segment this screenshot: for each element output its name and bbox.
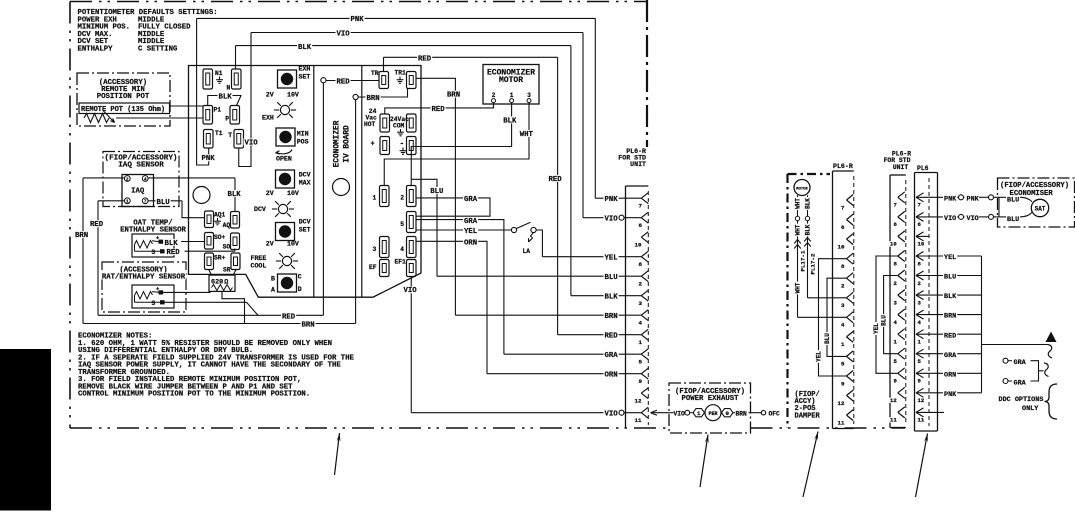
- svg-text:7: 7: [639, 203, 643, 210]
- svg-text:BRN: BRN: [605, 313, 618, 321]
- svg-text:HOT: HOT: [364, 121, 376, 128]
- svg-text:1: 1: [373, 195, 377, 202]
- svg-text:4: 4: [639, 320, 643, 327]
- svg-text:P: P: [225, 116, 229, 123]
- svg-text:12: 12: [890, 397, 897, 404]
- svg-text:UNIT: UNIT: [893, 164, 909, 171]
- svg-text:BRN: BRN: [367, 95, 380, 103]
- svg-text:D: D: [298, 286, 302, 293]
- svg-text:9: 9: [639, 378, 643, 385]
- svg-text:SO: SO: [223, 243, 231, 250]
- svg-text:BLK: BLK: [944, 293, 957, 301]
- svg-text:BLK: BLK: [804, 198, 811, 209]
- svg-text:SET: SET: [299, 227, 311, 234]
- svg-text:EF1: EF1: [395, 259, 407, 266]
- svg-text:N1: N1: [215, 70, 223, 77]
- svg-text:YEL: YEL: [944, 254, 956, 262]
- svg-text:LA: LA: [523, 248, 531, 255]
- svg-text:VIO: VIO: [674, 411, 686, 418]
- svg-text:BLK: BLK: [298, 44, 312, 52]
- svg-text:TR: TR: [371, 70, 379, 77]
- svg-text:2: 2: [492, 92, 496, 99]
- svg-text:2V: 2V: [266, 190, 274, 197]
- svg-text:VIO: VIO: [944, 215, 956, 223]
- svg-text:WHT: WHT: [520, 131, 534, 139]
- svg-text:RED: RED: [549, 176, 563, 184]
- svg-text:PNK: PNK: [967, 195, 980, 203]
- svg-text:(FIOP/ACCESSORY): (FIOP/ACCESSORY): [1000, 182, 1069, 190]
- svg-text:-: -: [400, 140, 405, 149]
- svg-text:ECONOMIZER: ECONOMIZER: [333, 120, 341, 167]
- svg-text:MOTOR: MOTOR: [499, 76, 523, 85]
- svg-text:DCV: DCV: [299, 172, 311, 179]
- svg-text:AQ: AQ: [223, 222, 231, 229]
- svg-text:SET: SET: [299, 74, 311, 81]
- svg-text:ORN: ORN: [464, 240, 477, 248]
- svg-text:PL6: PL6: [917, 165, 929, 172]
- svg-text:T1: T1: [215, 130, 223, 137]
- svg-text:2: 2: [639, 281, 643, 288]
- svg-text:MIN: MIN: [297, 131, 309, 138]
- svg-text:BRN: BRN: [447, 92, 460, 100]
- svg-text:10: 10: [890, 241, 897, 248]
- svg-text:5: 5: [400, 221, 404, 228]
- svg-text:PL17-2: PL17-2: [809, 253, 816, 274]
- svg-text:BLU: BLU: [605, 274, 618, 282]
- svg-text:1: 1: [639, 339, 643, 346]
- svg-text:AQ1: AQ1: [214, 211, 226, 218]
- svg-text:CONTROL MINIMUM POSITION POT T: CONTROL MINIMUM POSITION POT TO THE MINI…: [78, 391, 310, 399]
- svg-text:RED: RED: [337, 79, 351, 87]
- svg-text:BLU: BLU: [1007, 216, 1019, 224]
- svg-text:2: 2: [400, 195, 404, 202]
- svg-text:VIO: VIO: [337, 30, 351, 38]
- svg-text:11: 11: [635, 417, 642, 424]
- svg-text:1: 1: [697, 410, 701, 417]
- svg-text:8: 8: [841, 263, 845, 270]
- svg-text:3: 3: [841, 302, 845, 309]
- svg-text:12: 12: [918, 397, 925, 404]
- svg-text:7: 7: [841, 204, 845, 211]
- svg-text:PNK: PNK: [944, 391, 957, 399]
- svg-text:N: N: [227, 85, 231, 92]
- svg-text:POSITION POT: POSITION POT: [97, 93, 150, 101]
- svg-text:PNK: PNK: [605, 196, 619, 204]
- svg-text:10: 10: [838, 243, 845, 250]
- svg-text:A: A: [271, 287, 275, 294]
- svg-text:RED: RED: [282, 313, 296, 321]
- svg-text:EF: EF: [369, 264, 377, 271]
- svg-text:SAT: SAT: [1035, 206, 1046, 213]
- svg-text:7: 7: [894, 202, 897, 209]
- svg-text:10: 10: [918, 241, 925, 248]
- svg-text:BRN: BRN: [736, 411, 748, 418]
- svg-text:BRN: BRN: [944, 313, 956, 321]
- svg-text:GRA: GRA: [944, 352, 957, 360]
- svg-text:ENTHALPY: ENTHALPY: [78, 45, 114, 53]
- svg-text:10: 10: [635, 242, 642, 249]
- svg-text:3: 3: [639, 300, 643, 307]
- svg-text:11: 11: [918, 417, 925, 424]
- svg-text:VIO: VIO: [245, 139, 259, 147]
- svg-text:PNK: PNK: [351, 16, 365, 24]
- svg-text:RED: RED: [418, 56, 432, 64]
- svg-text:6: 6: [841, 224, 845, 231]
- svg-text:ENTHALPY SENSOR: ENTHALPY SENSOR: [120, 226, 186, 234]
- svg-text:OPEN: OPEN: [276, 156, 292, 163]
- svg-text:UNIT: UNIT: [630, 161, 646, 168]
- svg-text:BLU: BLU: [944, 274, 956, 282]
- svg-text:DCV: DCV: [254, 206, 266, 213]
- svg-text:11: 11: [890, 417, 897, 424]
- svg-text:PNK: PNK: [202, 155, 216, 163]
- svg-text:DCV: DCV: [299, 219, 311, 226]
- svg-text:REMOTE POT (135 Ohm): REMOTE POT (135 Ohm): [81, 106, 165, 114]
- svg-text:DAMPER: DAMPER: [795, 412, 821, 420]
- svg-text:5: 5: [841, 361, 845, 368]
- svg-text:IV BOARD: IV BOARD: [343, 125, 351, 163]
- svg-text:PL6-R: PL6-R: [833, 163, 853, 170]
- svg-text:VIO: VIO: [605, 216, 619, 224]
- svg-text:S: S: [152, 300, 156, 307]
- svg-text:1: 1: [510, 92, 514, 99]
- svg-text:RED: RED: [167, 249, 181, 257]
- svg-text:YEL: YEL: [605, 255, 618, 263]
- svg-text:WHT: WHT: [794, 282, 801, 293]
- svg-text:SR+: SR+: [214, 255, 226, 262]
- svg-text:12: 12: [635, 398, 642, 405]
- svg-text:MAX: MAX: [299, 180, 311, 187]
- svg-text:SR: SR: [223, 266, 231, 273]
- svg-text:BLU: BLU: [824, 333, 831, 344]
- svg-text:POS: POS: [297, 139, 309, 146]
- svg-text:COOL: COOL: [251, 263, 267, 270]
- svg-text:7: 7: [918, 202, 921, 209]
- svg-text:YEL: YEL: [873, 323, 880, 334]
- svg-text:BLU: BLU: [881, 315, 888, 326]
- svg-text:S: S: [152, 249, 156, 256]
- svg-text:EXH: EXH: [299, 66, 311, 73]
- svg-text:RED: RED: [432, 106, 446, 114]
- svg-text:RAT/ENTHALPY SENSOR: RAT/ENTHALPY SENSOR: [102, 273, 186, 281]
- svg-text:2: 2: [841, 283, 845, 290]
- svg-text:BRN: BRN: [75, 232, 88, 240]
- svg-text:BLK: BLK: [503, 117, 517, 125]
- svg-text:FREE: FREE: [251, 255, 267, 262]
- svg-text:BLU: BLU: [430, 188, 443, 196]
- svg-text:C: C: [298, 274, 302, 281]
- svg-text:BLK: BLK: [804, 224, 811, 235]
- svg-text:2V: 2V: [266, 92, 274, 99]
- svg-text:BRN: BRN: [302, 322, 315, 330]
- svg-text:MOTOR: MOTOR: [796, 187, 808, 191]
- svg-text:11: 11: [838, 419, 845, 426]
- svg-text:5: 5: [639, 359, 643, 366]
- svg-text:9: 9: [841, 380, 845, 387]
- svg-text:4: 4: [400, 246, 404, 253]
- svg-text:0: 0: [725, 410, 729, 417]
- svg-text:4: 4: [841, 322, 845, 329]
- svg-text:T: T: [228, 132, 232, 139]
- svg-text:OFC: OFC: [769, 411, 781, 418]
- svg-text:VIO: VIO: [605, 411, 619, 419]
- svg-text:ECONOMISER: ECONOMISER: [1010, 190, 1054, 198]
- svg-text:DDC OPTIONS: DDC OPTIONS: [999, 396, 1044, 404]
- svg-text:10V: 10V: [287, 241, 299, 248]
- svg-text:GRA: GRA: [464, 218, 478, 226]
- svg-text:IAQ SENSOR: IAQ SENSOR: [118, 162, 164, 170]
- svg-text:+: +: [371, 141, 375, 149]
- svg-text:RED: RED: [605, 333, 619, 341]
- svg-text:YEL: YEL: [464, 228, 477, 236]
- svg-text:10V: 10V: [287, 190, 299, 197]
- svg-text:PNK: PNK: [944, 195, 957, 203]
- svg-text:12: 12: [838, 400, 845, 407]
- svg-text:1: 1: [126, 199, 129, 205]
- svg-text:BLK: BLK: [605, 294, 619, 302]
- svg-text:7: 7: [144, 199, 147, 205]
- svg-text:C SETTING: C SETTING: [138, 45, 178, 53]
- svg-text:B: B: [271, 276, 275, 283]
- svg-text:GRA: GRA: [1014, 359, 1027, 367]
- svg-text:RED: RED: [90, 221, 104, 229]
- svg-text:6: 6: [639, 222, 643, 229]
- svg-text:TR1: TR1: [395, 70, 407, 77]
- svg-text:GRA: GRA: [464, 196, 478, 204]
- svg-text:3: 3: [373, 246, 377, 253]
- svg-text:GRA: GRA: [1014, 379, 1027, 387]
- svg-text:BLK: BLK: [219, 94, 233, 102]
- svg-text:PER: PER: [708, 411, 717, 417]
- svg-text:10V: 10V: [287, 92, 299, 99]
- svg-text:BLK: BLK: [165, 240, 179, 248]
- svg-text:ORN: ORN: [605, 372, 618, 380]
- svg-text:3: 3: [527, 92, 531, 99]
- svg-text:PL17-1: PL17-1: [799, 250, 806, 271]
- svg-text:POWER EXHAUST: POWER EXHAUST: [682, 395, 740, 403]
- svg-text:2: 2: [126, 176, 129, 182]
- svg-text:RED: RED: [944, 332, 956, 340]
- svg-text:WHT: WHT: [794, 224, 801, 235]
- svg-text:4: 4: [144, 176, 147, 182]
- svg-text:8: 8: [639, 261, 643, 268]
- svg-text:BLU: BLU: [157, 199, 170, 207]
- svg-text:2V: 2V: [266, 241, 274, 248]
- svg-text:VIO: VIO: [404, 287, 418, 295]
- svg-text:VIO: VIO: [967, 215, 979, 223]
- svg-text:WHT: WHT: [794, 198, 801, 209]
- svg-text:P1: P1: [214, 107, 222, 114]
- svg-text:YEL: YEL: [815, 351, 822, 362]
- svg-text:ORN: ORN: [944, 371, 956, 379]
- svg-text:SO+: SO+: [214, 234, 226, 241]
- svg-text:1: 1: [841, 341, 845, 348]
- svg-text:IAQ: IAQ: [131, 188, 145, 196]
- svg-text:EXH: EXH: [262, 115, 274, 122]
- svg-text:GRA: GRA: [605, 352, 619, 360]
- svg-text:BLK: BLK: [228, 191, 242, 199]
- svg-text:ONLY: ONLY: [1022, 405, 1039, 413]
- svg-text:COM: COM: [393, 123, 405, 130]
